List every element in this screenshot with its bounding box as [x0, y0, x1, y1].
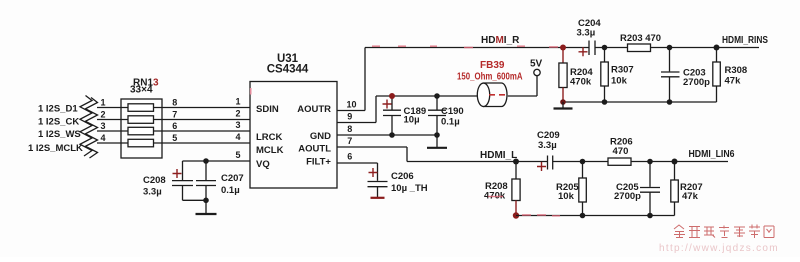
- wire pin9: [337, 122, 376, 124]
- svg-text:2: 2: [100, 110, 105, 120]
- ferrite bead FB39: [477, 83, 507, 107]
- resistor R208: [512, 179, 520, 201]
- watermark chinese characters: [674, 225, 774, 239]
- svg-text:1 I2S_D1: 1 I2S_D1: [38, 103, 78, 114]
- svg-text:HDMI_L: HDMI_L: [480, 150, 517, 161]
- wire R205 top: [582, 162, 584, 179]
- svg-text:1: 1: [235, 97, 240, 107]
- svg-text:R203 470: R203 470: [620, 33, 661, 44]
- junction R208/rail (red): [513, 212, 519, 218]
- svg-text:3: 3: [235, 120, 240, 130]
- junction R307/rail: [602, 99, 608, 105]
- svg-text:C207: C207: [221, 173, 244, 184]
- wire R207 bottom: [674, 202, 676, 216]
- C208 polarity plus: [173, 169, 182, 178]
- red annotation dash over 470k: [488, 196, 503, 198]
- svg-text:GND: GND: [310, 131, 331, 142]
- svg-text:HDMI_R: HDMI_R: [481, 35, 520, 46]
- resistor R205: [579, 178, 587, 202]
- junction R208 top: [513, 159, 519, 165]
- 5V terminal circle: [534, 69, 540, 75]
- junction C189 bottom: [389, 132, 395, 138]
- junction C190 bottom: [434, 132, 440, 138]
- RN13 resistor element 3: [128, 127, 154, 135]
- wire pin7 AOUTL: [337, 146, 407, 148]
- svg-text:33×4: 33×4: [130, 85, 153, 96]
- svg-text:10µ _TH: 10µ _TH: [391, 183, 428, 194]
- svg-text:10: 10: [346, 100, 356, 110]
- junction C205 top: [647, 159, 653, 165]
- junction R204 top (red): [560, 45, 566, 51]
- svg-text:SDIN: SDIN: [256, 104, 279, 115]
- resistor R206 (series): [608, 158, 631, 165]
- svg-text:4: 4: [235, 132, 240, 142]
- svg-text:150_Ohm_600mA: 150_Ohm_600mA: [457, 72, 523, 83]
- wire R307 bottom: [604, 86, 606, 102]
- svg-text:MCLK: MCLK: [256, 145, 284, 156]
- svg-text:1: 1: [100, 98, 105, 108]
- svg-text:LRCK: LRCK: [256, 132, 283, 143]
- svg-text:R307: R307: [611, 65, 634, 76]
- wire R205 bottom: [582, 202, 584, 216]
- wire pin9 riser: [375, 96, 377, 123]
- svg-text:1 I2S_MCLK: 1 I2S_MCLK: [28, 143, 83, 154]
- C209 polarity plus: [537, 162, 546, 171]
- junction C203 bottom: [667, 99, 673, 105]
- wire R308 top: [716, 48, 718, 63]
- svg-text:4: 4: [100, 133, 105, 143]
- wire net HDMI_L right part: [553, 161, 728, 163]
- wire VQ pin5: [183, 160, 251, 162]
- svg-text:47k: 47k: [682, 191, 699, 202]
- svg-text:5V: 5V: [530, 59, 543, 70]
- svg-text:C190: C190: [441, 106, 464, 117]
- wire I2S_MCLK: [97, 142, 250, 144]
- svg-text:6: 6: [347, 152, 352, 162]
- ground below C207: [196, 200, 217, 214]
- svg-text:9: 9: [347, 112, 352, 122]
- svg-text:HDMI_LIN6: HDMI_LIN6: [689, 149, 735, 160]
- wire net HDMI_R right part: [595, 47, 759, 49]
- wire net HDMI_R left part: [365, 47, 589, 49]
- capacitor C206 (10u TH electrolytic): [368, 182, 388, 198]
- wire R207 top: [674, 162, 676, 181]
- svg-text:2700p: 2700p: [683, 77, 710, 88]
- capacitor C208 (3.3u electrolytic): [172, 161, 206, 200]
- resistor R204: [559, 63, 567, 88]
- svg-text:0.1µ: 0.1µ: [441, 117, 460, 128]
- wire pin10 riser to HDMI_R: [364, 48, 366, 111]
- junction C190 top: [434, 93, 440, 99]
- 5V supply riser: [536, 76, 538, 96]
- wire pin8 GND: [337, 134, 437, 136]
- svg-text:0.1µ: 0.1µ: [221, 185, 240, 196]
- wire R307 top: [604, 48, 606, 63]
- svg-text:2700p: 2700p: [614, 191, 641, 202]
- connector zigzag break symbol: [80, 96, 98, 159]
- svg-text:47k: 47k: [725, 76, 742, 87]
- junction C203 top: [667, 45, 673, 51]
- svg-text:AOUTR: AOUTR: [297, 104, 331, 115]
- ground symbol below R204: [554, 102, 573, 109]
- svg-text:http://www.jqdzs.com: http://www.jqdzs.com: [659, 243, 779, 254]
- junction R307 top: [602, 45, 608, 51]
- svg-text:470k: 470k: [570, 77, 592, 88]
- capacitor C190 (0.1u): [428, 96, 446, 135]
- svg-text:470: 470: [613, 146, 629, 157]
- svg-text:7: 7: [347, 136, 352, 146]
- junction R204/ground (dark red): [560, 99, 566, 105]
- junction R205/rail: [580, 213, 586, 219]
- svg-text:C206: C206: [391, 171, 414, 182]
- svg-text:HDMI_RINS: HDMI_RINS: [722, 35, 768, 46]
- svg-text:R308: R308: [725, 65, 748, 76]
- red annotation dashes along HDMI_R: [372, 46, 558, 47]
- svg-text:VQ: VQ: [256, 159, 270, 170]
- svg-text:1 I2S_CK: 1 I2S_CK: [38, 116, 79, 127]
- svg-text:8: 8: [172, 98, 177, 108]
- svg-text:10k: 10k: [558, 191, 575, 202]
- capacitor C205 (2700p): [640, 162, 660, 216]
- svg-text:5: 5: [172, 133, 177, 143]
- junction C189 top (red): [389, 93, 395, 99]
- resistor R203 (series): [628, 44, 651, 52]
- junction C205 bottom: [647, 213, 653, 219]
- capacitor C204 (3.3u series electrolytic): [589, 41, 595, 56]
- svg-text:1 I2S_WS: 1 I2S_WS: [38, 129, 81, 140]
- red annotation dashes on bottom rail: [522, 214, 560, 217]
- junction R207 top: [672, 159, 678, 165]
- resistor R308: [713, 62, 721, 86]
- resistor R207: [671, 180, 679, 202]
- C206 polarity plus: [369, 168, 378, 177]
- wire I2S_D1 to SDIN: [97, 107, 250, 109]
- op-amp/DAC IC U31 CS4344 body: [250, 82, 337, 189]
- ground below GND wire: [427, 135, 447, 148]
- RN13 resistor element 2: [128, 116, 154, 124]
- svg-text:8: 8: [347, 124, 352, 134]
- wire net HDMI_L left part: [407, 161, 547, 163]
- wire R208 bottom (red path): [515, 201, 517, 216]
- svg-text:10k: 10k: [611, 76, 628, 87]
- junction VQ/C207: [203, 158, 209, 164]
- junction C208/C207 bottoms: [203, 198, 209, 204]
- capacitor C207 (0.1u): [196, 161, 216, 200]
- FB39 red dashed core line: [489, 94, 505, 96]
- wire pin6 drop to C206: [377, 163, 379, 181]
- svg-text:3.3µ: 3.3µ: [143, 187, 162, 198]
- wire I2S_WS: [97, 130, 250, 132]
- svg-text:5: 5: [235, 150, 240, 160]
- capacitor C189 (10u electrolytic): [383, 96, 401, 135]
- RN13 resistor element 1: [128, 104, 154, 112]
- svg-text:7: 7: [172, 110, 177, 120]
- wire I2S_CK: [97, 119, 250, 121]
- svg-text:3.3µ: 3.3µ: [538, 140, 557, 151]
- svg-text:6: 6: [172, 121, 177, 131]
- RN13 resistor element 4: [128, 139, 154, 147]
- resistor R307: [601, 62, 609, 86]
- svg-text:10µ: 10µ: [404, 115, 420, 126]
- capacitor C203 (2700p): [661, 48, 680, 103]
- svg-text:CS4344: CS4344: [267, 64, 309, 76]
- ground rail (top network): [563, 101, 717, 103]
- wire R208 top: [515, 162, 517, 180]
- svg-text:FB39: FB39: [480, 60, 505, 71]
- wire R204 top (red path): [562, 48, 564, 64]
- junction R308 top: [714, 45, 720, 51]
- bottom rail (left network): [516, 215, 675, 217]
- wire pin6 FILT+: [337, 162, 378, 164]
- wire R308 bottom: [716, 86, 718, 102]
- svg-text:3.3µ: 3.3µ: [577, 28, 596, 39]
- svg-text:C208: C208: [143, 175, 166, 186]
- wire FB39 to 5V: [508, 95, 537, 97]
- wire pin10 AOUTR: [337, 110, 365, 112]
- svg-text:3: 3: [100, 121, 105, 131]
- wire pin7 drop: [406, 147, 408, 162]
- red annotation dash on chip edge: [250, 88, 252, 95]
- svg-text:2: 2: [235, 109, 240, 119]
- ground below C206 (red): [371, 197, 385, 199]
- svg-text:FILT+: FILT+: [306, 157, 331, 168]
- resistor network RN13 body: [121, 99, 162, 158]
- C204 polarity plus: [579, 47, 588, 56]
- wire R204 bottom (red path): [562, 88, 564, 103]
- C189 polarity plus: [383, 100, 392, 109]
- junction R205 top: [580, 159, 586, 165]
- wire supply rail to FB39: [376, 95, 477, 97]
- svg-text:AOUTL: AOUTL: [298, 144, 331, 155]
- capacitor C209 (3.3u series electrolytic): [548, 156, 553, 170]
